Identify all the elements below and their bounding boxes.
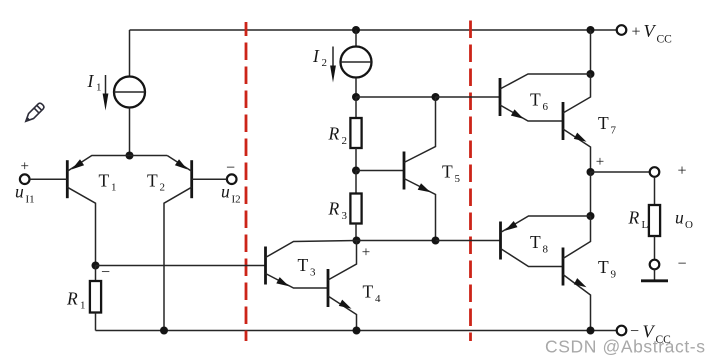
- transistor T8 collector: [501, 249, 564, 267]
- transistor T4 emitter: [328, 296, 357, 331]
- transistor T3 emitter: [266, 274, 329, 289]
- transistor T3 bar: [264, 247, 267, 285]
- transistor T1 emitter: [67, 156, 129, 172]
- wire u_I1 to T1 base: [30, 178, 68, 180]
- wire R3 to plus node: [355, 224, 357, 241]
- svg-text:u: u: [221, 182, 230, 202]
- svg-text:CSDN @Abstract-s: CSDN @Abstract-s: [545, 337, 706, 357]
- node R2 R3 T5 base: [352, 167, 360, 175]
- transistor T4 bar: [327, 269, 330, 307]
- current source I1: [114, 77, 145, 108]
- terminal -Vcc: [617, 326, 627, 336]
- wire terminal to RL: [654, 177, 656, 205]
- node I2 top rail: [352, 26, 360, 34]
- wire top +Vcc rail: [130, 29, 617, 31]
- transistor T7 bar: [562, 102, 565, 140]
- svg-text:1: 1: [96, 82, 102, 94]
- node emitter junction T1 T2: [126, 152, 134, 160]
- node T2 collector to rail: [160, 327, 168, 335]
- wire node to T5 collector junction: [356, 96, 436, 98]
- terminal input u_I2: [227, 174, 237, 184]
- wire RL to lower terminal: [654, 236, 656, 260]
- svg-text:+: +: [677, 163, 686, 180]
- svg-text:I1: I1: [26, 194, 35, 206]
- stage separator dashed line left: [245, 22, 248, 341]
- svg-text:5: 5: [455, 173, 461, 185]
- transistor T4 collector: [328, 241, 357, 281]
- wire top rail to I1: [129, 30, 131, 77]
- transistor T2 emitter: [167, 156, 192, 172]
- svg-text:−: −: [677, 256, 686, 273]
- node T5 emitter junction: [432, 237, 440, 245]
- svg-text:1: 1: [111, 182, 117, 194]
- wire T5 base: [356, 170, 404, 172]
- transistor T6 bar: [499, 78, 502, 116]
- svg-text:R: R: [66, 289, 78, 309]
- ground: [641, 279, 668, 282]
- svg-text:I: I: [312, 46, 320, 66]
- wire node to R1: [95, 266, 97, 282]
- node T9 emitter to rail: [587, 327, 595, 335]
- svg-text:6: 6: [543, 101, 549, 113]
- svg-text:T: T: [99, 171, 110, 191]
- svg-text:T: T: [598, 113, 609, 133]
- svg-text:+: +: [20, 159, 28, 175]
- svg-text:T: T: [530, 232, 541, 252]
- resistor R3: [350, 194, 361, 224]
- svg-text:1: 1: [80, 300, 86, 312]
- svg-text:I: I: [87, 71, 95, 91]
- wire top rail to I2: [355, 30, 357, 46]
- node T1 collector junction: [92, 262, 100, 270]
- terminal input u_I1: [20, 174, 30, 184]
- wire junction to T8 base: [436, 240, 501, 242]
- resistor RL: [649, 205, 660, 236]
- pencil edit icon: [23, 102, 45, 124]
- wire rail to collector bus: [590, 30, 592, 74]
- transistor T5 collector: [404, 97, 436, 163]
- svg-text:2: 2: [160, 182, 166, 194]
- svg-text:T: T: [147, 171, 158, 191]
- arrow I2 direction: [332, 47, 334, 69]
- transistor T6 emitter: [500, 105, 563, 121]
- wire plus node to T5 emitter junction: [357, 240, 436, 242]
- wire node to R3: [355, 171, 357, 194]
- wire terminal to ground: [654, 269, 656, 280]
- svg-text:9: 9: [611, 269, 617, 281]
- svg-text:4: 4: [375, 293, 381, 305]
- svg-text:T: T: [530, 90, 541, 110]
- transistor T1 bar: [66, 160, 69, 198]
- wire output bus down: [590, 172, 592, 216]
- resistor R1: [90, 281, 101, 313]
- svg-text:T: T: [598, 257, 609, 277]
- node T8 emitter T9 collector junction: [587, 212, 595, 220]
- transistor T3 collector: [266, 241, 357, 258]
- node T4 emitter to rail: [353, 327, 361, 335]
- svg-text:2: 2: [322, 57, 328, 69]
- svg-text:O: O: [685, 219, 693, 231]
- transistor T2 collector: [164, 187, 192, 330]
- wire T1 collector node to T3 base: [96, 265, 266, 267]
- svg-text:R: R: [328, 124, 340, 144]
- transistor T8 emitter: [501, 216, 591, 233]
- wire R2 to node: [355, 148, 357, 171]
- svg-text:u: u: [675, 208, 684, 228]
- transistor T9 emitter: [563, 275, 591, 331]
- node T6 T7 collector junction: [587, 70, 595, 78]
- svg-text:3: 3: [342, 210, 348, 222]
- current source I2: [341, 47, 372, 78]
- terminal output -: [650, 260, 660, 270]
- wire junction to T6 base: [436, 96, 501, 98]
- transistor T2 bar: [190, 160, 193, 198]
- svg-text:−: −: [226, 160, 235, 177]
- resistor R2: [350, 118, 361, 148]
- svg-text:+: +: [632, 24, 641, 41]
- svg-text:T: T: [298, 255, 309, 275]
- svg-text:R: R: [628, 208, 640, 228]
- transistor T9 collector: [563, 216, 591, 259]
- wire I2 to node: [355, 78, 357, 97]
- svg-text:8: 8: [543, 244, 549, 256]
- svg-text:3: 3: [310, 267, 316, 279]
- svg-text:T: T: [442, 162, 453, 182]
- arrow I1 direction: [105, 75, 107, 96]
- svg-text:u: u: [15, 182, 24, 202]
- svg-text:+: +: [362, 245, 370, 261]
- wire output node to terminal: [591, 171, 650, 173]
- svg-text:I2: I2: [232, 194, 241, 206]
- wire I1 to emitter node: [129, 108, 131, 156]
- node below I2: [352, 93, 360, 101]
- terminal +Vcc: [617, 25, 627, 35]
- svg-text:L: L: [642, 219, 649, 231]
- wire T2 base to u_I2: [192, 178, 227, 180]
- transistor T9 bar: [562, 248, 565, 286]
- stage separator dashed line right: [469, 21, 472, 342]
- terminal output +: [650, 167, 660, 177]
- wire bottom -Vcc rail: [96, 330, 617, 332]
- node top rail right: [587, 26, 595, 34]
- transistor T8 bar: [499, 222, 502, 260]
- svg-text:R: R: [328, 199, 340, 219]
- svg-text:+: +: [596, 154, 604, 170]
- node T5 collector junction: [432, 93, 440, 101]
- wire node to R2: [355, 97, 357, 118]
- transistor T6 collector: [500, 74, 591, 89]
- wire emitter bus: [130, 155, 168, 157]
- transistor T7 collector: [563, 74, 591, 113]
- transistor T1 collector: [67, 187, 95, 265]
- svg-text:−: −: [101, 264, 110, 281]
- wire R1 to bottom rail: [95, 313, 97, 331]
- svg-text:CC: CC: [657, 34, 673, 46]
- transistor T5 emitter: [404, 179, 436, 241]
- svg-text:2: 2: [342, 135, 348, 147]
- svg-text:7: 7: [611, 125, 617, 137]
- transistor T5 bar: [403, 152, 406, 190]
- node plus junction: [353, 237, 361, 245]
- node output junction: [587, 168, 595, 176]
- svg-text:T: T: [363, 282, 374, 302]
- transistor T7 emitter: [563, 129, 591, 172]
